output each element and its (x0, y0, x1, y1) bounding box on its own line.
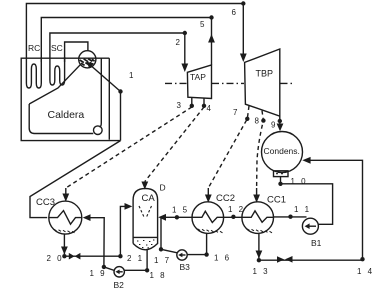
wire TBP exit to condenser (279, 116, 281, 127)
wire hotwell to node 10 (280, 177, 282, 184)
caldera right edge (108, 58, 110, 140)
wire node 19 riser to CC3 (85, 218, 105, 267)
CC1 bottom hatch (247, 229, 272, 233)
wire condenser return from node 14 (305, 160, 363, 259)
SC coil serpentine (50, 57, 65, 85)
node 21 (118, 254, 122, 258)
pump B2 (114, 267, 124, 277)
svg-text:5: 5 (200, 20, 205, 29)
svg-text:B2: B2 (114, 280, 125, 290)
svg-text:SC: SC (51, 43, 63, 53)
node 6 (241, 1, 245, 5)
svg-text:1 5: 1 5 (172, 206, 189, 215)
condenser circle (262, 132, 303, 173)
wire main line CC1 to CC2 (224, 216, 243, 218)
svg-text:7: 7 (233, 108, 238, 117)
svg-text:TBP: TBP (256, 69, 274, 79)
svg-text:1 3: 1 3 (253, 267, 270, 276)
svg-text:TAP: TAP (190, 72, 206, 82)
svg-text:1 4: 1 4 (357, 267, 374, 276)
node 7 (245, 117, 249, 121)
svg-text:1 8: 1 8 (150, 271, 167, 280)
wire line4 drum to SC (65, 42, 88, 62)
RC coil serpentine (26, 57, 41, 88)
wire node 18 to B2 (124, 269, 147, 271)
CC3 zigzag (49, 211, 82, 225)
pump B3 (177, 250, 187, 260)
CA bottom outlet to node 18 (146, 250, 148, 270)
heater CC1 circle (242, 202, 274, 234)
valve between 13 and 14 (277, 256, 284, 263)
svg-text:2 0: 2 0 (47, 254, 64, 263)
svg-text:RC: RC (28, 43, 40, 53)
drum water hatch (80, 59, 95, 66)
wire line3 main steam SC to node 2 to TAP (50, 33, 185, 71)
wire B2 outlet to node 19 (104, 267, 115, 271)
pump B1 (302, 218, 318, 234)
boiler Caldera outer box (21, 58, 120, 140)
svg-text:1 2: 1 2 (228, 205, 245, 214)
wire node 16 to B3 (187, 254, 206, 256)
deaerator CA vessel (133, 189, 158, 250)
node 1 (118, 89, 122, 93)
wire B3 outlet to node 17 riser (161, 249, 177, 253)
svg-text:B3: B3 (180, 262, 191, 272)
CC3 drain to node 20 (63, 234, 65, 254)
arrow into TAP (181, 64, 188, 73)
wire main line CC2 to CA (160, 216, 192, 218)
CA spray dashes (139, 206, 152, 217)
node 5 (209, 15, 213, 19)
valve 20-21 (69, 253, 75, 260)
heater CC2 circle (192, 202, 224, 234)
CC2 drain to node 16 (206, 233, 208, 254)
svg-text:Caldera: Caldera (48, 109, 85, 121)
svg-text:4: 4 (207, 104, 212, 113)
svg-text:1 9: 1 9 (90, 269, 107, 278)
svg-text:1 6: 1 6 (214, 254, 231, 263)
svg-text:6: 6 (232, 8, 237, 17)
turbine TBP (245, 49, 280, 116)
CC3 bottom hatch (54, 229, 75, 233)
node 9 (278, 119, 282, 123)
node 2 (183, 31, 187, 35)
downcomer circle (94, 126, 103, 135)
CC1 zigzag (242, 211, 273, 222)
node 11 (288, 215, 292, 219)
node 10 (278, 182, 282, 186)
wire node 21 riser into CA left (120, 206, 130, 256)
svg-text:1 1: 1 1 (294, 205, 311, 214)
downcomer tube from top edge (100, 58, 102, 127)
svg-text:8: 8 (255, 117, 260, 126)
feedwater line node 1 to drum (89, 64, 121, 92)
svg-text:CC1: CC1 (267, 195, 286, 206)
condenser hotwell box (274, 171, 289, 177)
arrow into condenser (277, 124, 284, 132)
svg-text:Condens.: Condens. (264, 146, 300, 156)
wire feedwater diagonal duct to CC3 (30, 141, 121, 218)
node 8 (261, 118, 265, 122)
extraction dashed TAP node3 to CC3 (66, 106, 264, 188)
svg-text:CC2: CC2 (216, 193, 235, 204)
CA water line (134, 236, 158, 238)
arrow into CC3 right (83, 214, 91, 221)
arrow into drum (87, 62, 94, 69)
arrow into CC3 (65, 188, 67, 199)
svg-text:B1: B1 (311, 238, 322, 248)
arrow into TBP (240, 54, 247, 63)
node 12 (231, 215, 235, 219)
CC2 bottom hatch (198, 229, 223, 233)
svg-text:CC3: CC3 (36, 197, 55, 208)
arrow into CC2 (207, 188, 209, 200)
svg-text:2: 2 (176, 38, 181, 47)
CA stipple (137, 240, 154, 248)
wire B1 outlet to CC1 (273, 216, 306, 218)
svg-text:1: 1 (129, 71, 134, 80)
wire node10 to B1 inlet (281, 184, 333, 225)
wire bottom drain line 13 to 14 (259, 259, 363, 261)
wire node 20 to valve to node 21 (64, 255, 120, 257)
arrow into CA (144, 182, 146, 188)
svg-text:3: 3 (177, 101, 182, 110)
wire line1 hot reheat RC to node 6 to TBP (26, 4, 243, 63)
wire feedwater riser (120, 92, 122, 141)
steam drum (79, 51, 96, 68)
node 14 (360, 257, 364, 261)
node 4 stub (203, 98, 205, 105)
furnace inner left wall and floor (29, 104, 93, 134)
svg-text:D: D (160, 183, 166, 193)
svg-text:1 0: 1 0 (291, 177, 308, 186)
CC1 drain (258, 233, 260, 258)
node 15 (175, 215, 179, 219)
svg-text:1 7: 1 7 (154, 256, 171, 265)
svg-text:2 1: 2 1 (127, 254, 144, 263)
svg-text:CA: CA (142, 193, 156, 204)
shaft centerline (165, 82, 294, 84)
CC2 zigzag (192, 211, 223, 222)
node 3 stub (191, 97, 193, 104)
furnace inner wall and riser to drum (29, 65, 80, 104)
arrow into CC1 (256, 188, 258, 200)
svg-text:9: 9 (271, 121, 276, 130)
node 13 (257, 258, 261, 262)
arrow up on line2 (208, 34, 215, 43)
wire line2 cold reheat TAP to node 5 to RC (41, 18, 211, 65)
arrow into CA right (158, 214, 166, 221)
heater CC3 circle (49, 201, 82, 234)
arrow into condenser right (302, 157, 310, 164)
turbine TAP (187, 65, 211, 99)
